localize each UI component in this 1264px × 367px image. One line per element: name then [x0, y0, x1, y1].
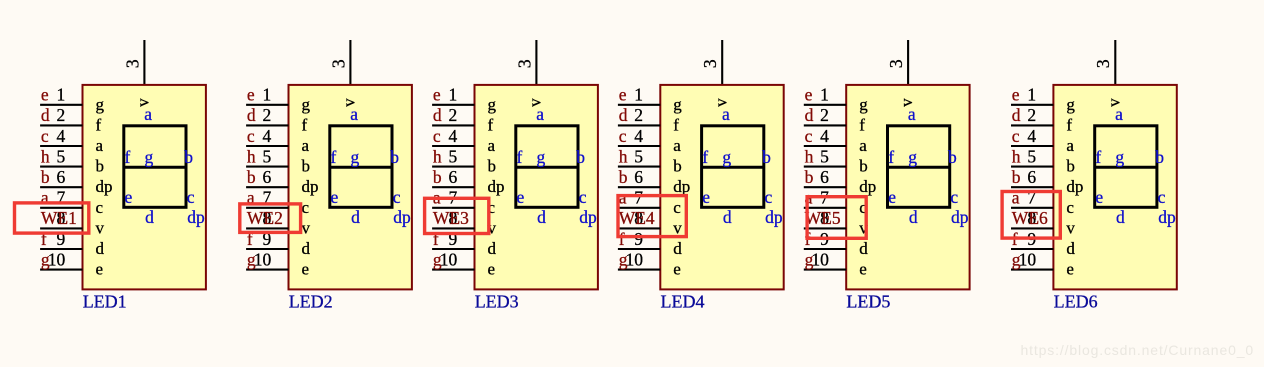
svg-text:LED5: LED5: [846, 292, 890, 312]
svg-text:LED3: LED3: [475, 292, 519, 312]
svg-text:WE1: WE1: [41, 208, 77, 228]
svg-text:LED2: LED2: [289, 292, 333, 312]
svg-text:WE6: WE6: [1012, 208, 1048, 228]
svg-text:LED6: LED6: [1054, 292, 1098, 312]
svg-text:https://blog.csdn.net/Curnane0: https://blog.csdn.net/Curnane0_0: [1021, 342, 1254, 358]
svg-text:WE3: WE3: [433, 208, 469, 228]
svg-text:WE5: WE5: [805, 208, 841, 228]
svg-text:LED4: LED4: [661, 292, 705, 312]
svg-text:WE4: WE4: [619, 208, 655, 228]
svg-text:WE2: WE2: [247, 208, 283, 228]
svg-text:LED1: LED1: [83, 292, 127, 312]
